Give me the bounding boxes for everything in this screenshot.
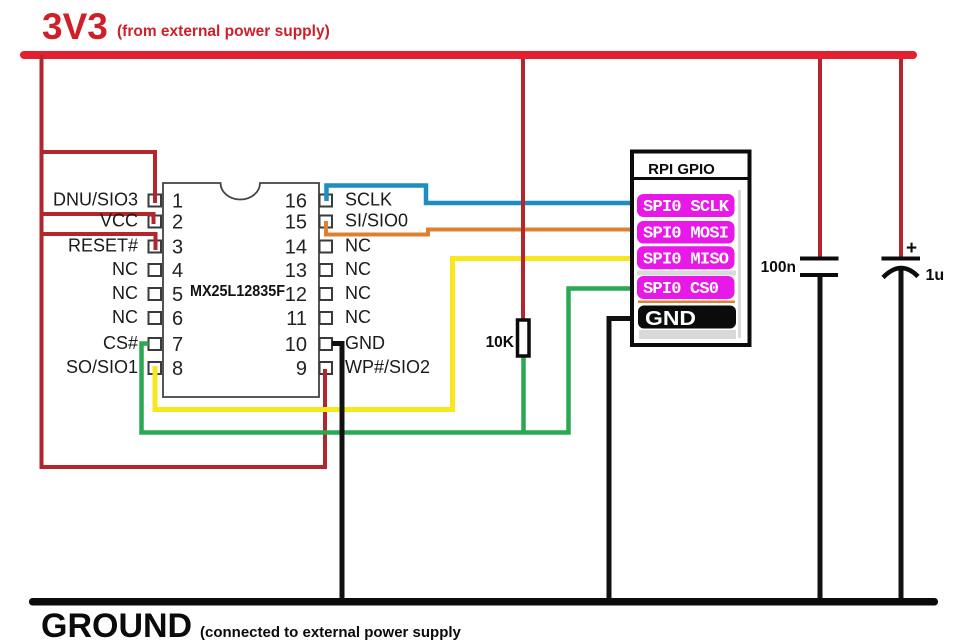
svg-text:CS#: CS# xyxy=(103,333,138,353)
svg-text:6: 6 xyxy=(172,308,183,330)
svg-text:14: 14 xyxy=(285,237,307,259)
svg-text:NC: NC xyxy=(112,283,138,303)
svg-text:SPI0 CS0: SPI0 CS0 xyxy=(643,280,719,299)
svg-text:1: 1 xyxy=(172,191,183,213)
svg-text:16: 16 xyxy=(285,191,307,213)
svg-text:5: 5 xyxy=(172,284,183,306)
svg-text:11: 11 xyxy=(286,308,307,330)
svg-text:SI/SIO0: SI/SIO0 xyxy=(345,211,408,231)
svg-text:GROUND: GROUND xyxy=(41,607,192,641)
svg-text:3V3: 3V3 xyxy=(42,6,108,47)
svg-text:+: + xyxy=(906,238,917,259)
svg-text:NC: NC xyxy=(112,259,138,279)
svg-text:2: 2 xyxy=(172,212,183,234)
svg-text:RESET#: RESET# xyxy=(68,236,138,256)
svg-text:(connected to external power s: (connected to external power supply xyxy=(200,624,462,641)
svg-text:10K: 10K xyxy=(486,334,515,351)
svg-text:SPI0 SCLK: SPI0 SCLK xyxy=(643,198,730,217)
svg-text:SPI0 MOSI: SPI0 MOSI xyxy=(643,225,729,244)
svg-text:10: 10 xyxy=(285,334,307,356)
svg-text:7: 7 xyxy=(172,334,183,356)
svg-text:3: 3 xyxy=(172,237,183,259)
svg-text:12: 12 xyxy=(285,284,307,306)
svg-text:VCC: VCC xyxy=(100,211,138,231)
svg-text:NC: NC xyxy=(345,283,371,303)
svg-text:DNU/SIO3: DNU/SIO3 xyxy=(53,190,138,210)
svg-text:WP#/SIO2: WP#/SIO2 xyxy=(345,357,430,377)
svg-text:MX25L12835F: MX25L12835F xyxy=(190,283,285,300)
svg-text:13: 13 xyxy=(285,260,307,282)
svg-text:15: 15 xyxy=(285,212,307,234)
svg-text:NC: NC xyxy=(112,307,138,327)
svg-text:SCLK: SCLK xyxy=(345,190,392,210)
svg-text:1u: 1u xyxy=(926,267,945,284)
svg-text:4: 4 xyxy=(172,260,183,282)
svg-text:8: 8 xyxy=(172,358,183,380)
svg-text:9: 9 xyxy=(296,358,307,380)
svg-text:GND: GND xyxy=(345,333,385,353)
svg-text:NC: NC xyxy=(345,307,371,327)
svg-text:SO/SIO1: SO/SIO1 xyxy=(66,357,138,377)
svg-text:NC: NC xyxy=(345,259,371,279)
svg-text:100n: 100n xyxy=(761,259,796,276)
svg-text:GND: GND xyxy=(645,308,696,330)
svg-text:(from external power supply): (from external power supply) xyxy=(117,23,330,40)
svg-text:NC: NC xyxy=(345,236,371,256)
svg-text:SPI0 MISO: SPI0 MISO xyxy=(643,250,729,269)
svg-text:RPI GPIO: RPI GPIO xyxy=(648,161,715,178)
